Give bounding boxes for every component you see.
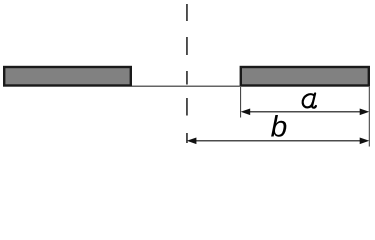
centerline (dashed vertical) [186, 4, 188, 143]
extension line right (for dimensions a and b) [368, 87, 370, 147]
label a (single-story italic, drawn as path) [303, 94, 316, 108]
extension line left (for dimension a) [240, 87, 242, 118]
svg-text:b: b [271, 111, 288, 144]
wire: thin horizontal line between sections [132, 85, 240, 87]
dimension line a [248, 111, 362, 113]
right section rectangle [241, 67, 369, 86]
dimension line b [194, 140, 362, 142]
left section rectangle [4, 67, 131, 86]
technical drawing: washer cross-section with dimensions a and b [0, 0, 375, 151]
